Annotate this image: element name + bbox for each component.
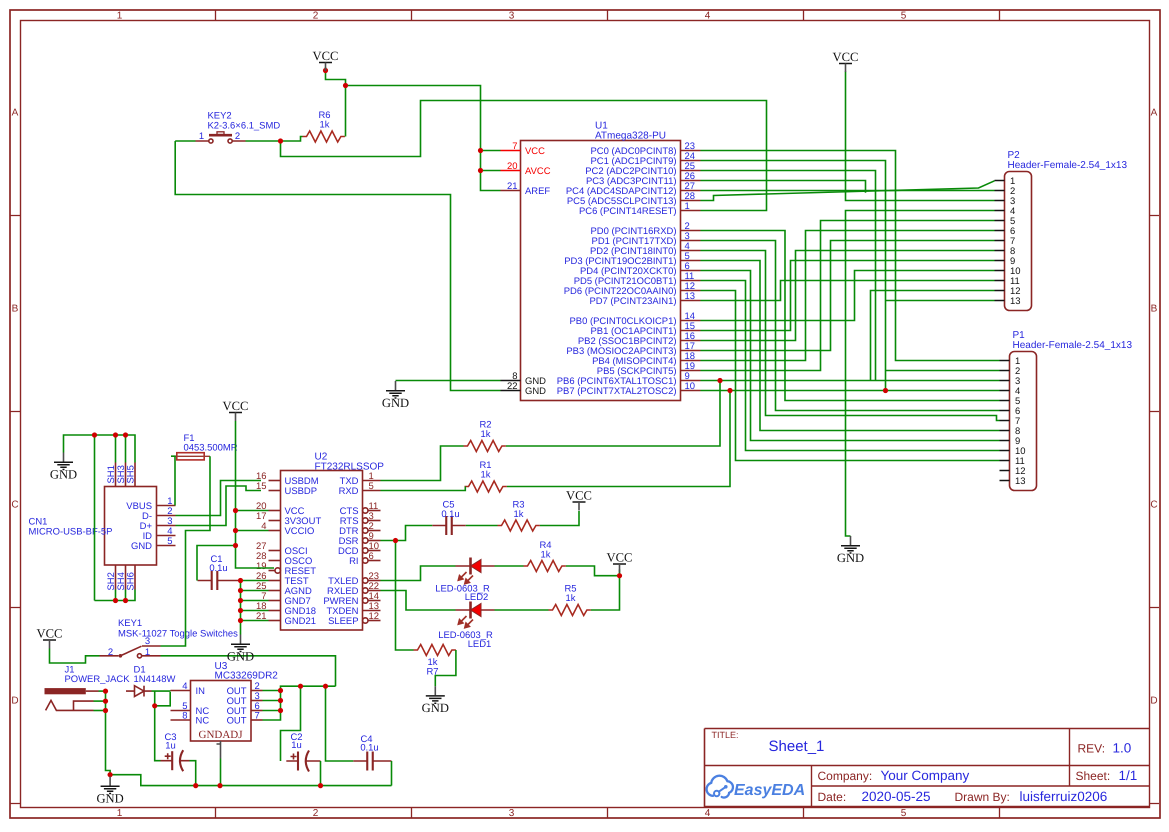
wire D1 to U3 IN [152, 690, 171, 692]
svg-text:VCC: VCC [37, 627, 63, 641]
U1 pin 21 AREF [501, 181, 551, 197]
U3 pin 7 OUT [227, 711, 263, 727]
U1 pin 2 PD0 [590, 221, 700, 237]
svg-text:13: 13 [1015, 476, 1026, 487]
VCC flag U2 [223, 399, 249, 421]
svg-text:Header-Female-2.54_1x13: Header-Female-2.54_1x13 [1008, 160, 1128, 171]
svg-text:1: 1 [117, 11, 123, 22]
VCC flag KEY1 [37, 627, 63, 649]
wire DSR net down to R7 [396, 541, 414, 651]
svg-text:SH5: SH5 [126, 465, 137, 483]
svg-text:AREF: AREF [525, 186, 550, 197]
P1 pin 8 [1000, 426, 1021, 437]
capacitor C4 0.1u [353, 752, 391, 771]
U3 pin GNDADJ [199, 729, 244, 759]
svg-text:Header-Female-2.54_1x13: Header-Female-2.54_1x13 [1013, 340, 1133, 351]
svg-text:GND: GND [422, 701, 449, 715]
junction shield [92, 432, 97, 437]
svg-text:GNDADJ: GNDADJ [199, 729, 244, 741]
ground J1 [96, 777, 123, 806]
svg-text:GND: GND [837, 551, 864, 565]
U1 pin 4 PD2 [590, 241, 701, 257]
wire PC1 down [701, 161, 886, 391]
wire KEY2 pin2 [246, 140, 281, 142]
LED [456, 602, 495, 628]
switch KEY1 MSK-11027 [100, 646, 161, 658]
LED [456, 558, 495, 584]
svg-text:GND: GND [96, 792, 123, 806]
VCC flag R3 [566, 489, 592, 511]
junction GNDADJ [217, 783, 222, 788]
svg-text:MICRO-USB-BF-5P: MICRO-USB-BF-5P [29, 527, 113, 538]
svg-text:NC: NC [196, 716, 210, 727]
U1 pin 25 PC2 [585, 161, 700, 177]
resistor [549, 605, 591, 616]
U1 pin 11 PD5 [574, 271, 701, 287]
junction SH4 [123, 598, 128, 603]
junction J1 shunt [103, 708, 108, 713]
U1 pin 22 GND [501, 381, 547, 397]
wire to U2 AGND pin [241, 590, 269, 592]
VCC flag LEDs [607, 551, 633, 573]
junction OUT3 [278, 698, 283, 703]
U2 pin 16 USBDM [256, 471, 319, 487]
svg-text:20: 20 [507, 161, 518, 172]
CN1 pin SH3 [116, 463, 127, 487]
svg-text:VCC: VCC [833, 50, 859, 64]
wire PC2 to P1 pin3 column [701, 171, 876, 381]
wire SH3 [125, 435, 127, 463]
ground CN1 shield [50, 453, 77, 482]
svg-text:AVCC: AVCC [525, 166, 551, 177]
U1 pin 6 PD4 [580, 261, 701, 277]
svg-text:REV:: REV: [1078, 742, 1106, 756]
U1 pin 14 PB0 [570, 311, 701, 327]
P2 pin 13 [995, 296, 1021, 307]
junction VCC LEDs [617, 573, 622, 578]
junction SH3 [123, 432, 128, 437]
ground U2 [227, 635, 254, 664]
wire R3 to VCC [540, 511, 579, 526]
svg-text:0.1u: 0.1u [441, 509, 459, 520]
wire PD2 to P1 pin7 [701, 251, 1000, 421]
svg-text:21: 21 [507, 181, 518, 192]
wire PD1 to P1 pin6 [701, 241, 1000, 411]
wire D1 branch [154, 691, 156, 706]
svg-text:OUT: OUT [227, 716, 247, 727]
P2 pin 11 [995, 276, 1020, 287]
svg-text:7: 7 [512, 141, 517, 152]
resistor [498, 520, 540, 531]
wire PC0 to P1 pin1 [701, 151, 1000, 361]
CN1 pin 3 D+ [140, 516, 176, 532]
svg-text:1k: 1k [514, 509, 524, 520]
svg-text:Drawn By:: Drawn By: [955, 790, 1010, 804]
junction J1 tip [103, 689, 108, 694]
wire CN1 VBUS to F1 [171, 456, 175, 505]
svg-text:PC6 (PCINT14RESET): PC6 (PCINT14RESET) [579, 206, 677, 217]
svg-text:VCC: VCC [525, 146, 545, 157]
wire [346, 86, 501, 191]
capacitor [161, 750, 190, 771]
U2 pin 6 RI [349, 551, 380, 567]
wire to U2 GND7 pin [241, 600, 269, 602]
wire VCC junction to R5 [591, 570, 620, 611]
op-amp U2 body: FT232RLSSOP USB-UART IC [281, 471, 363, 631]
U1 pin 28 PC5 [567, 191, 701, 207]
svg-text:13: 13 [1010, 296, 1021, 307]
U1 pin 18 PB4 [592, 351, 700, 367]
U1 pin 5 PD3 [564, 251, 700, 267]
junction U1 AVCC [478, 168, 483, 173]
P1 pin 4 [1000, 386, 1021, 397]
junction OUT6 [278, 708, 283, 713]
svg-text:Date:: Date: [818, 790, 847, 804]
P1 pin 5 [1000, 396, 1021, 407]
wire PB6 to P2 pin12 [871, 291, 995, 381]
svg-text:D: D [1150, 696, 1157, 707]
U2 pin 3 RTS [340, 511, 381, 527]
U2 pin 9 DSR [339, 531, 381, 547]
U2 pin 15 USBDP [256, 481, 317, 497]
U1 pin 13 PD7 [589, 291, 700, 307]
U1 pin 10 PB7 [557, 381, 701, 397]
switch KEY2 K2-3.6x6.1_SMD [196, 132, 246, 143]
svg-text:13: 13 [685, 291, 696, 302]
wire PB5 to P2 pin5 [701, 221, 995, 371]
svg-text:GND21: GND21 [285, 616, 316, 627]
diode D1 1N4148W [126, 686, 152, 697]
title block [705, 729, 1151, 808]
U2 pin 27 OSCI [256, 541, 308, 557]
wire U3 OUT7 tie [263, 691, 281, 721]
wire U3 OUT6 [263, 710, 281, 712]
wire U2 RXLED to LED2 [381, 591, 456, 611]
wire CN1 D- to U2 USBDM [176, 481, 262, 516]
P1 pin 7 [1000, 416, 1021, 427]
svg-text:2: 2 [313, 808, 319, 819]
wire C2 to ground rail [320, 761, 322, 786]
junction AGND [238, 588, 243, 593]
EasyEDA logo [707, 776, 806, 799]
P1 pin 3 [1000, 376, 1021, 387]
U2 pin 22 RXLED [327, 581, 380, 597]
svg-text:Company:: Company: [818, 769, 873, 783]
connector J1 POWER_JACK [45, 688, 99, 710]
P2 pin 10 [995, 266, 1021, 277]
svg-text:VCC: VCC [313, 49, 339, 63]
svg-text:6: 6 [369, 551, 374, 562]
U2 pin 20 VCC [256, 501, 305, 517]
junction J1 sleeve [103, 699, 108, 704]
svg-text:GND: GND [382, 396, 409, 410]
svg-text:1u: 1u [165, 741, 176, 752]
U2 pin 10 DCD [338, 541, 380, 557]
U1 pin 23 PC0 [590, 141, 700, 157]
wire CN1 D+ to U2 USBDP [176, 486, 262, 526]
svg-text:POWER_JACK: POWER_JACK [65, 674, 131, 685]
wire to R2 [506, 381, 720, 447]
resistor [465, 481, 507, 492]
wire bottom ground rail [110, 775, 391, 786]
wire KEY1 pin1 to regulator output rail [161, 656, 336, 686]
P1 pin 12 [1000, 466, 1026, 477]
svg-text:C: C [1150, 500, 1157, 511]
svg-text:Your Company: Your Company [881, 768, 970, 783]
svg-text:D: D [11, 696, 18, 707]
P2 pin 9 [995, 256, 1016, 267]
svg-text:TITLE:: TITLE: [712, 730, 739, 740]
svg-text:PB7 (PCINT7XTAL2TOSC2): PB7 (PCINT7XTAL2TOSC2) [557, 386, 677, 397]
svg-text:5: 5 [901, 808, 907, 819]
P2 pin 12 [995, 286, 1021, 297]
connector CN1 MICRO-USB-BF-5P [105, 487, 157, 566]
wire SH2 [115, 590, 117, 601]
junction VCC top [323, 68, 328, 73]
svg-text:4: 4 [705, 11, 711, 22]
wire rail to C4 [326, 686, 354, 761]
wire shield rail to ground [64, 435, 136, 463]
U1 pin 1 PC6 [579, 201, 701, 217]
wire VCC net down U2 left column to RESET [236, 421, 275, 568]
wire F1 to KEY1 pin3 [161, 456, 211, 646]
wire U2 DSR to C5 [381, 526, 433, 541]
junction KEY2 [278, 138, 283, 143]
P2 pin 6 [995, 226, 1016, 237]
svg-text:GND: GND [525, 386, 546, 397]
U2 pin 1 TXD [340, 471, 381, 487]
wire U3 GNDADJ to ground rail [220, 759, 222, 786]
junction C3 ground [193, 783, 198, 788]
wire to U2 GND18 pin [241, 610, 269, 612]
svg-text:GND: GND [50, 468, 77, 482]
wire to U2 TEST pin [241, 580, 269, 582]
P1 pin 9 [1000, 436, 1021, 447]
wire R2 to U2 TXD [381, 446, 464, 481]
wire PB4 to P2 pin6 [701, 231, 995, 361]
U2 pin 17 3V3OUT [256, 511, 321, 527]
CN1 pin 4 ID [143, 526, 176, 542]
svg-text:GND: GND [227, 650, 254, 664]
U2 pin 11 CTS [340, 501, 381, 517]
wire [326, 67, 346, 137]
P2 pin 7 [995, 236, 1016, 247]
U3 pin 6 OUT [227, 701, 263, 717]
CN1 pin 5 GND [131, 536, 175, 552]
wire regulator output rail [281, 686, 336, 690]
U1 pin 16 PB2 [578, 331, 701, 347]
wire KEY2 junction to R6 [281, 137, 303, 142]
U2 pin 28 OSCO [256, 551, 312, 567]
svg-text:1N4148W: 1N4148W [134, 674, 176, 685]
wire VCC to P2 pin3 [846, 72, 995, 201]
VCC flag top left [313, 49, 339, 71]
CN1 pin SH1 [106, 463, 117, 487]
wire J1 to ground rail [106, 711, 111, 775]
U2 pin 26 TEST [256, 571, 309, 587]
wire C5 to R3 [466, 525, 498, 527]
svg-text:12: 12 [369, 611, 380, 622]
P1 pin 10 [1000, 446, 1026, 457]
svg-text:5: 5 [901, 11, 907, 22]
wire LED1 to R4 [495, 565, 524, 567]
CN1 pin SH4 [116, 565, 127, 591]
junction C2 rail [298, 684, 303, 689]
svg-text:2: 2 [313, 11, 319, 22]
svg-text:A: A [1151, 108, 1158, 119]
U2 pin 25 AGND [256, 581, 312, 597]
junction SH1 [113, 432, 118, 437]
svg-text:10: 10 [685, 381, 696, 392]
svg-text:4: 4 [705, 808, 711, 819]
wire PD7 to P2 pin11 [701, 281, 995, 301]
P1 pin 13 [1000, 476, 1026, 487]
junction GND18 [238, 608, 243, 613]
wire PD3 to P1 pin8 [701, 261, 1000, 431]
wire to C3 [155, 706, 161, 761]
wire PC3 to diagonal [701, 181, 866, 193]
capacitor [286, 751, 320, 772]
wire VCC column to C1 [197, 546, 236, 581]
svg-text:KEY1: KEY1 [118, 618, 142, 629]
svg-text:IN: IN [196, 686, 206, 697]
wire J1 sleeve [94, 700, 106, 702]
junction OUT2 [278, 688, 283, 693]
wire PC4 to P2 pin2 [701, 190, 995, 192]
wire PB7 row to P1 pin4 [701, 390, 1000, 392]
wire PD0 to P1 pin5 [701, 231, 1000, 401]
svg-text:B: B [12, 304, 19, 315]
svg-text:2020-05-25: 2020-05-25 [862, 789, 931, 804]
capacitor [432, 516, 466, 535]
svg-text:PD7 (PCINT23AIN1): PD7 (PCINT23AIN1) [589, 296, 676, 307]
svg-text:5: 5 [369, 481, 374, 492]
junction GND21 [238, 618, 243, 623]
ground R7 [422, 686, 449, 715]
wire to U2 VCCIO pin [236, 530, 269, 532]
U1 pin 12 PD6 [564, 281, 701, 297]
CN1 pin 1 VBUS [126, 496, 175, 512]
wire to U2 GND21 pin [241, 620, 269, 622]
svg-text:LED2: LED2 [465, 592, 489, 603]
svg-text:8: 8 [182, 711, 187, 722]
resistor [524, 561, 566, 572]
svg-text:1k: 1k [566, 593, 576, 604]
svg-text:Sheet:: Sheet: [1076, 769, 1111, 783]
U3 pin 2 OUT [227, 681, 263, 697]
junction VCC rail [343, 83, 348, 88]
wire to U1 VCC pin [481, 150, 501, 152]
CN1 pin SH2 [106, 565, 117, 591]
wire J1 tip [99, 690, 106, 692]
junction GND7 [238, 598, 243, 603]
U2 pin 14 PWREN [323, 591, 380, 607]
svg-text:ATmega328-PU: ATmega328-PU [595, 131, 666, 142]
wire U3 OUT2 [263, 690, 281, 692]
wire SH4 [125, 590, 127, 601]
wire KEY2 pin1 [175, 140, 195, 142]
svg-text:1: 1 [199, 131, 204, 142]
svg-text:VCC: VCC [566, 489, 592, 503]
svg-text:3: 3 [509, 808, 515, 819]
svg-text:1k: 1k [481, 470, 491, 481]
U1 pin 3 PD1 [592, 231, 701, 247]
wire U1 GND pin8 to ground [396, 380, 501, 382]
wire R7 to ground [435, 650, 456, 686]
svg-text:LED1: LED1 [468, 639, 492, 650]
fuse F1 0453.500MR [171, 453, 210, 460]
svg-text:RXD: RXD [339, 486, 359, 497]
wire to U1 AVCC pin [481, 170, 501, 172]
svg-text:RI: RI [349, 556, 358, 567]
junction PB7/R1 [727, 388, 732, 393]
ground U1 [382, 381, 409, 410]
wire PB2 to P2 pin8 [701, 251, 995, 341]
U2 pin 18 GND18 [256, 601, 316, 617]
wire PD6 to P1 pin11 [701, 291, 1000, 461]
junction C1 [233, 543, 238, 548]
connector P1 Header-Female-2.54_1x13 [1010, 352, 1037, 491]
svg-text:MC33269DR2: MC33269DR2 [215, 671, 279, 682]
junction C2 ground [318, 783, 323, 788]
svg-text:2: 2 [235, 131, 240, 142]
U2 pin 19 RESET [256, 561, 316, 577]
connector P2 Header-Female-2.54_1x13 [1005, 172, 1032, 311]
svg-text:VCC: VCC [223, 399, 249, 413]
P2 pin 4 [995, 206, 1016, 217]
U1 pin 9 PB6 [557, 371, 701, 387]
svg-text:0453.500MR: 0453.500MR [184, 443, 238, 454]
wire J1 shunt [94, 710, 106, 712]
junction C4 rail [323, 684, 328, 689]
op-amp U3 body: MC33269DR2 regulator [191, 681, 252, 742]
svg-text:2: 2 [108, 647, 113, 658]
wire U3 OUT3 [263, 700, 281, 702]
CN1 pin SH5 [126, 463, 137, 487]
wire C3 to ground rail [190, 761, 196, 786]
svg-text:7: 7 [255, 711, 260, 722]
junction ground [108, 772, 113, 777]
wire R5 to LED2 [495, 609, 549, 611]
junction U2 VCC [233, 508, 238, 513]
junction TEST [238, 578, 243, 583]
wire PB1 to P2 pin9 [701, 261, 995, 331]
wire P2 pin4 to ground [846, 211, 995, 537]
wire to U2 VCC pin [236, 510, 269, 512]
wire to P1 pin2 [886, 370, 1000, 372]
junction PC1/PB7 [883, 388, 888, 393]
svg-text:1/1: 1/1 [1119, 768, 1138, 783]
wire rail to C2 [281, 686, 301, 761]
svg-text:EasyEDA: EasyEDA [734, 782, 805, 799]
P2 pin 3 [995, 196, 1016, 207]
svg-text:1: 1 [685, 201, 690, 212]
svg-text:1k: 1k [320, 120, 330, 131]
svg-text:1k: 1k [541, 550, 551, 561]
svg-text:FT232RLSSOP: FT232RLSSOP [315, 462, 385, 473]
wire PB0 to P2 pin10 [701, 271, 995, 321]
U1 pin 15 PB1 [590, 321, 700, 337]
wire U2 ground column [240, 581, 242, 635]
svg-text:22: 22 [507, 381, 518, 392]
U2 pin 23 TXLED [328, 571, 380, 587]
resistor [303, 131, 345, 142]
svg-text:4: 4 [182, 681, 187, 692]
U1 pin 24 PC1 [590, 151, 700, 167]
U2 pin 21 GND21 [256, 611, 316, 627]
svg-text:MSK-11027 Toggle Switches: MSK-11027 Toggle Switches [118, 629, 238, 640]
wire branch to U3 IN [155, 692, 171, 706]
